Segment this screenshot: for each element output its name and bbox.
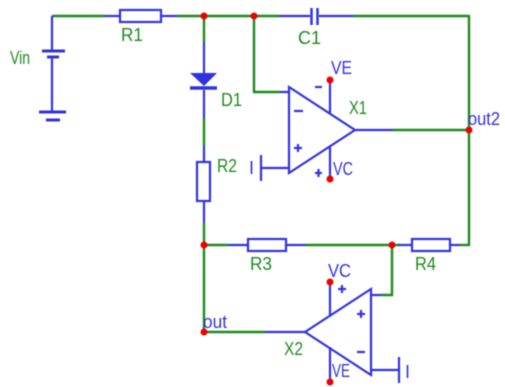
svg-text:VE: VE — [331, 58, 352, 78]
wire node D to X2 plus input — [381, 245, 392, 295]
svg-text:D1: D1 — [221, 90, 242, 110]
junction X1 VC — [327, 176, 334, 183]
wire R3 to node D — [306, 244, 392, 246]
X2 minus input mark — [357, 351, 365, 353]
op-amp X2 — [265, 282, 399, 383]
resistor R4 — [398, 239, 460, 251]
svg-text:X2: X2 — [284, 339, 303, 359]
wire C1 to right corner — [353, 15, 469, 17]
capacitor C1 — [279, 8, 353, 25]
wire corner to R4 — [460, 244, 470, 246]
svg-text:out: out — [203, 312, 227, 332]
X1 VC supply plus mark — [315, 169, 322, 177]
X2 VC supply plus mark — [338, 285, 346, 293]
ground — [39, 112, 66, 120]
X2 plus input mark — [357, 310, 365, 318]
junction node D — [389, 242, 396, 249]
X1 plus input mark — [294, 144, 302, 152]
wire node D to R4 — [392, 244, 400, 246]
wire X1 output to out2 — [393, 129, 469, 131]
svg-text:VC: VC — [328, 261, 351, 281]
wire R1 to C1 node row — [177, 15, 279, 17]
svg-text:R3: R3 — [250, 254, 272, 274]
op-amp X1 — [261, 80, 393, 181]
svg-text:I: I — [249, 158, 254, 178]
wire right vertical out2 rail — [468, 15, 470, 245]
junction node B — [251, 13, 258, 20]
X1 VE supply minus mark — [315, 86, 322, 88]
junction node C — [201, 242, 208, 249]
wire node C down to out — [203, 245, 205, 332]
svg-text:Vin: Vin — [10, 48, 30, 68]
svg-text:I: I — [405, 362, 410, 382]
svg-text:VE: VE — [332, 361, 350, 381]
svg-text:R1: R1 — [121, 25, 143, 45]
wire node A to diode — [203, 16, 205, 42]
svg-text:R2: R2 — [217, 156, 237, 176]
junction out — [201, 329, 208, 336]
junction X2 VC — [327, 279, 334, 286]
svg-text:out2: out2 — [468, 109, 500, 129]
svg-text:C1: C1 — [298, 28, 321, 48]
svg-text:X1: X1 — [349, 98, 367, 118]
X1 minus input mark — [294, 110, 303, 112]
wire diode to R2 — [203, 118, 205, 146]
junction node A — [201, 13, 208, 20]
wire X2 output to out — [204, 331, 265, 333]
wire R2 to node C — [203, 222, 205, 245]
wire node C to R3 — [204, 244, 228, 246]
resistor R1 — [105, 10, 177, 22]
svg-text:VC: VC — [333, 159, 353, 179]
junction X1 VE — [327, 77, 334, 84]
junction X2 VE — [327, 379, 334, 386]
junction out2 — [466, 127, 473, 134]
wire battery top to R1 — [52, 15, 105, 17]
svg-text:R4: R4 — [415, 254, 436, 274]
resistor R2 — [197, 146, 210, 222]
battery Vin — [42, 16, 65, 112]
wire node B to X1 minus input — [254, 16, 280, 92]
diode D1 — [190, 42, 217, 118]
resistor R3 — [228, 239, 306, 251]
